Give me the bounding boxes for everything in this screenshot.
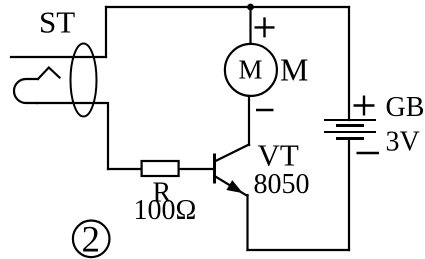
node junction dot — [247, 4, 254, 11]
switch ST glass envelope — [71, 44, 97, 117]
svg-text:M: M — [280, 52, 308, 88]
svg-text:M: M — [239, 55, 263, 85]
wire right vertical lower — [348, 139, 350, 250]
svg-text:GB: GB — [386, 92, 425, 123]
svg-text:8050: 8050 — [254, 169, 310, 200]
wire right vertical upper — [348, 7, 350, 120]
transistor VT collector — [215, 145, 250, 162]
svg-text:100Ω: 100Ω — [134, 195, 197, 226]
transistor VT emitter — [215, 176, 248, 196]
transistor VT emitter arrow — [227, 181, 241, 192]
motor M circle — [225, 44, 277, 96]
label - motor — [256, 109, 274, 112]
wire emitter vertical — [246, 195, 248, 250]
figure number circle 2 — [73, 221, 110, 258]
transistor VT base bar — [213, 155, 216, 182]
label + motor — [255, 17, 275, 37]
svg-text:3V: 3V — [386, 127, 420, 158]
wire to resistor — [108, 168, 142, 170]
wire bottom horizontal — [248, 249, 350, 251]
wire left vertical — [105, 7, 107, 57]
wire top horizontal — [106, 6, 349, 8]
wire motor top — [249, 7, 251, 45]
wire collector vertical — [248, 96, 250, 145]
switch ST movable contact — [14, 68, 60, 104]
switch ST fixed contact lead — [37, 103, 108, 169]
battery GB plates — [324, 120, 376, 139]
wire ST top lead — [11, 56, 106, 58]
resistor R — [142, 161, 179, 176]
svg-text:ST: ST — [39, 5, 75, 40]
svg-text:VT: VT — [258, 138, 299, 173]
svg-text:2: 2 — [82, 220, 101, 259]
label - battery — [357, 152, 380, 155]
label + battery — [354, 96, 375, 116]
wire resistor to base — [179, 168, 213, 170]
